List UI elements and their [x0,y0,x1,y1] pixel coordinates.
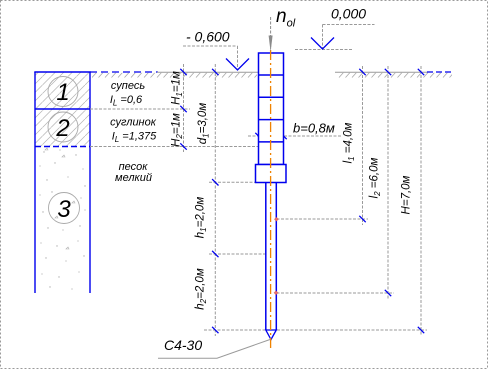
dimension line A x183.5 [183,64,185,152]
dimension line D x388 [387,66,389,299]
soil layer 1 hatch [35,72,90,109]
extension line bottom y330 [204,329,265,331]
level mark 0.000 symbol [311,38,334,50]
svg-text:IL =1,375: IL =1,375 [112,131,157,145]
svg-text:d1=3,0м: d1=3,0м [197,103,211,145]
ground line left blue dashes [90,71,158,73]
tick D y293 [385,290,391,296]
tick C ground [359,69,365,75]
tick b left [255,133,261,139]
svg-text:H=7,0м: H=7,0м [401,175,413,214]
tick B y182 [212,179,218,185]
tick B y254 [212,251,218,257]
svg-text:супесь: супесь [111,80,145,92]
tick E y330 [418,327,424,333]
soil column right edge [89,72,91,293]
extension line H2 bottom y146.5 [90,146,258,148]
circle mark layer 1 [48,77,78,107]
pile joint y120 [259,119,284,121]
svg-text:1: 1 [56,79,69,106]
pile tip [266,330,277,340]
level mark -0.600 lines [183,45,238,47]
pile joint y142 [259,141,284,143]
tick B ground [212,69,218,75]
circle mark layer 2 [48,112,78,142]
leader C4-30 [158,340,270,359]
extension line l2 bottom y293 [277,292,395,294]
svg-text:b=0,8м: b=0,8м [293,121,335,136]
svg-text:3: 3 [57,196,71,223]
ground hatch band left [92,73,257,79]
svg-text:H1=1м: H1=1м [171,71,185,105]
load arrow head [269,36,273,53]
dimension line B x215.3 [214,64,216,336]
pile shaft left [265,183,267,331]
soil column top edge [34,71,90,73]
tick D ground [385,69,391,75]
pile centerline [270,50,272,348]
svg-text:суглинок: суглинок [110,117,157,129]
pile shaft right [275,183,277,331]
layer 1/2 boundary [35,108,90,110]
b dimension line y136 [248,135,341,137]
pile joint y97 [259,96,284,98]
level mark 0.000 lines [323,24,375,26]
svg-text:l1 =4,0м: l1 =4,0м [343,122,357,163]
svg-text:h2=2,0м: h2=2,0м [195,268,209,310]
pile collar [256,165,287,183]
extension line d1 bottom y182 [209,181,256,183]
tick A ground [180,69,186,75]
svg-text:nol: nol [276,6,296,30]
sand dots layer 3 [39,148,85,290]
svg-text:2: 2 [55,115,69,142]
svg-text:l2 =6,0м: l2 =6,0м [369,157,383,198]
dimension line C x362.5 [362,66,364,225]
tick E ground [418,69,424,75]
layer 2/3 boundary (dashed) [35,146,90,148]
tick C y219 [359,216,365,222]
ground hatch band right [337,73,452,79]
tick A y109 [180,106,186,112]
pile joint y75 [259,74,284,76]
red node marker l2 [274,291,278,295]
svg-text:IL =0,6: IL =0,6 [110,94,143,108]
svg-text:С4-30: С4-30 [164,337,202,353]
red node marker l1 [274,217,278,221]
level mark -0.600 symbol [226,59,249,71]
svg-text:мелкий: мелкий [115,172,152,184]
svg-text:0,000: 0,000 [331,6,366,22]
tick b right [280,133,286,139]
ground line right blue dashes [427,71,451,73]
tick B y330 [212,327,218,333]
dimension line E x421 [420,66,422,336]
svg-text:H2=1м: H2=1м [171,113,185,147]
load arrow line [270,17,272,49]
extension line h1 bottom y254 [209,253,266,255]
ground line right gray [335,71,428,73]
pile body outline [259,53,284,165]
extension line H1 bottom y109 [90,108,190,110]
extension line l1 bottom y219 [277,218,369,220]
tick A y146.5 [180,143,186,149]
dimension ticks [180,69,424,333]
svg-text:- 0,600: - 0,600 [186,29,230,45]
circle mark layer 3 [49,193,80,224]
soil column left edge [34,72,36,293]
svg-text:h1=2,0м: h1=2,0м [195,197,209,239]
ground line left gray [157,71,259,73]
soil layer 2 hatch [35,109,90,147]
